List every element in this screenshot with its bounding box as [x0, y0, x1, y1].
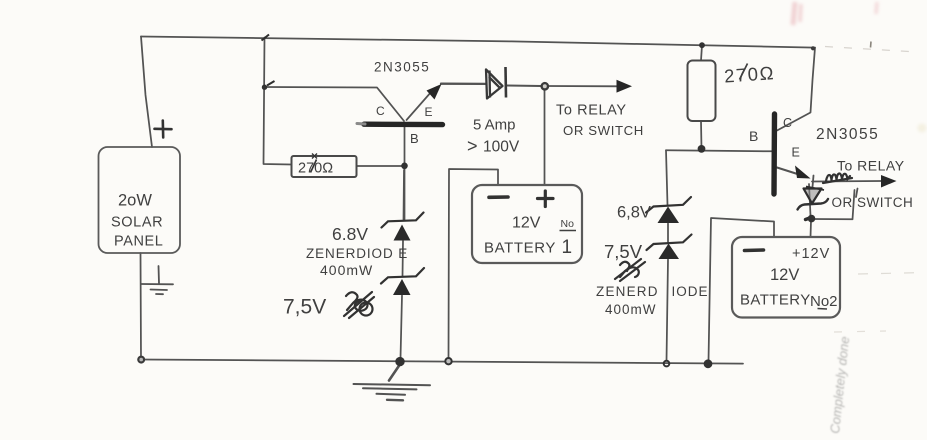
svg-text:5 Amp: 5 Amp — [473, 117, 516, 134]
svg-text:270Ω: 270Ω — [723, 62, 775, 86]
svg-text:400mW: 400mW — [605, 302, 657, 317]
svg-text:7,5V: 7,5V — [604, 241, 643, 262]
svg-text:B: B — [749, 128, 758, 144]
svg-text:2N3055: 2N3055 — [374, 60, 430, 75]
svg-text:E: E — [792, 146, 800, 160]
svg-text:BATTERY: BATTERY — [484, 240, 556, 257]
svg-text:BATTERY: BATTERY — [740, 292, 811, 309]
svg-text:12V: 12V — [770, 266, 799, 284]
svg-text:SOLAR: SOLAR — [111, 215, 163, 231]
svg-text:2oW: 2oW — [118, 192, 152, 210]
svg-text:ZENERD: ZENERD — [596, 284, 659, 299]
svg-text:2N3055: 2N3055 — [816, 126, 879, 143]
svg-text:IODE: IODE — [672, 284, 709, 299]
svg-text:6.8V: 6.8V — [332, 224, 368, 244]
svg-text:400mW: 400mW — [320, 262, 373, 278]
svg-text:6,8V: 6,8V — [617, 204, 651, 222]
svg-text:B: B — [410, 131, 419, 146]
svg-text:+12V: +12V — [792, 246, 830, 262]
svg-text:To RELAY: To RELAY — [837, 158, 905, 174]
svg-text:No: No — [561, 218, 575, 230]
svg-text:>: > — [467, 136, 478, 156]
svg-text:No2: No2 — [810, 293, 838, 310]
svg-text:OR SWITCH: OR SWITCH — [832, 195, 914, 210]
svg-text:E: E — [425, 105, 433, 119]
svg-text:C: C — [376, 104, 385, 118]
svg-text:To RELAY: To RELAY — [556, 103, 627, 119]
svg-text:1: 1 — [562, 237, 573, 258]
svg-text:12V: 12V — [512, 215, 541, 232]
svg-text:ZENERDIOD E: ZENERDIOD E — [306, 246, 408, 261]
svg-text:100V: 100V — [483, 139, 520, 156]
svg-text:7,5V: 7,5V — [283, 296, 326, 319]
svg-text:PANEL: PANEL — [114, 234, 163, 250]
svg-text:C: C — [783, 116, 792, 130]
svg-text:OR SWITCH: OR SWITCH — [563, 123, 644, 138]
